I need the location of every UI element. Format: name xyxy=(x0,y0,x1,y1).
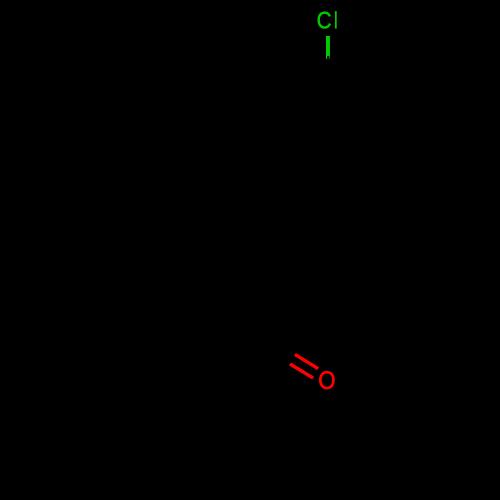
svg-text:C: C xyxy=(317,7,332,34)
svg-text:O: O xyxy=(318,368,335,395)
